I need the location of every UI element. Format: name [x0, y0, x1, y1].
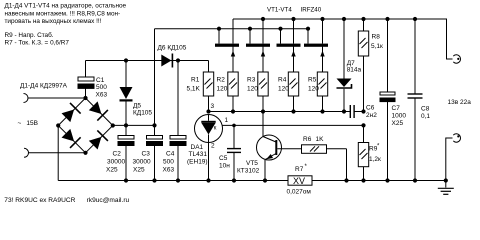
svg-text:VT1-VT4: VT1-VT4 [267, 7, 292, 14]
output terminal minus [453, 134, 460, 142]
resistor R8 [358, 19, 368, 112]
label R7* [287, 164, 312, 196]
svg-text:C8: C8 [421, 106, 430, 113]
label C8 0,1 [421, 106, 430, 121]
resistor R2 [228, 72, 238, 112]
label Д7 814а [347, 60, 362, 74]
svg-text:0,027ом: 0,027ом [287, 189, 312, 196]
svg-text:0,1: 0,1 [421, 113, 430, 120]
svg-text:500: 500 [163, 159, 174, 166]
svg-text:R4: R4 [278, 77, 287, 84]
AC input terminal bottom [24, 148, 29, 157]
node bridge bottom corner [83, 151, 87, 155]
ground [438, 181, 454, 195]
svg-text:C4: C4 [166, 150, 175, 157]
capacitor C3 [147, 125, 163, 180]
svg-text:R8: R8 [372, 34, 381, 41]
svg-text:VT5: VT5 [246, 160, 258, 167]
wire top output bus [233, 19, 453, 59]
resistor R1 [203, 61, 213, 112]
node C2 junction [124, 123, 128, 127]
svg-text:C6: C6 [366, 104, 375, 111]
svg-text:навесным монтажем. !!! R8,R9,С: навесным монтажем. !!! R8,R9,С8 мон- [5, 10, 121, 17]
svg-text:DA1: DA1 [191, 144, 204, 151]
svg-text:rk9uc@mail.ru: rk9uc@mail.ru [87, 197, 130, 204]
svg-text:к: к [214, 126, 217, 132]
diode Д6 [161, 54, 172, 68]
svg-text:R5: R5 [308, 77, 317, 84]
svg-text:15В: 15В [26, 120, 38, 127]
transistor VT3 mosfet [277, 19, 301, 72]
node gate bus junctions [206, 109, 346, 113]
svg-text:1K: 1K [316, 136, 325, 143]
diode Д3 lower-left [61, 128, 81, 148]
node R8/C6 junction [361, 109, 365, 113]
capacitor C6 [344, 105, 364, 118]
label C7 1000 X25 [392, 105, 407, 127]
svg-text:R1: R1 [191, 77, 200, 84]
transistor VT4 mosfet [304, 19, 328, 72]
label Д5 КД105 [133, 103, 152, 117]
svg-text:Д1-Д4 VT1-VT4 на радиаторе, ос: Д1-Д4 VT1-VT4 на радиаторе, остальное [5, 3, 127, 10]
wire gate bus [209, 111, 345, 113]
svg-text:тировать на выходных клемах !!: тировать на выходных клемах !!! [5, 18, 102, 25]
node bridge top corner [83, 96, 87, 100]
node drain bus junctions [217, 27, 310, 31]
label R6 1K [303, 136, 324, 143]
wire bridge minus down [57, 126, 59, 181]
diode Д5 [120, 61, 133, 126]
wire DA1 anode to rail [208, 143, 210, 181]
diode Д7 zener [337, 19, 352, 112]
transistor Q5 VT5 КТ3102 [257, 112, 302, 181]
svg-text:C1: C1 [96, 77, 105, 84]
label C6 2н2 [366, 104, 377, 119]
svg-text:КД105: КД105 [133, 110, 152, 117]
resistor R3 [258, 72, 268, 112]
label VT5 КТ3102 [237, 160, 260, 175]
label C5 10н [219, 155, 230, 169]
wire bottom rail left of R7 [58, 180, 288, 182]
transistor VT2 mosfet [246, 19, 270, 72]
svg-text:X25: X25 [106, 166, 118, 173]
svg-text:C3: C3 [142, 150, 151, 157]
diode Д2 upper-right [88, 101, 108, 121]
svg-text:120: 120 [247, 86, 258, 93]
svg-text:120: 120 [278, 86, 289, 93]
capacitor C4 [170, 61, 186, 181]
resistor R9 [358, 125, 368, 180]
node Д6 cathode / C4 tap [176, 58, 180, 62]
svg-text:30000: 30000 [107, 159, 125, 166]
label R5 120 [308, 77, 319, 93]
label C3 30000 X25 [133, 150, 151, 173]
resistor R6 [302, 145, 347, 181]
svg-text:Д6 КД105: Д6 КД105 [158, 45, 187, 52]
svg-text:~: ~ [18, 120, 22, 127]
label R8 5,1к [371, 34, 383, 51]
op-amp U1 DA1 TL431 [195, 115, 223, 143]
footer text [4, 197, 129, 204]
svg-text:1: 1 [225, 117, 229, 124]
svg-text:R2: R2 [217, 77, 226, 84]
resistor R7 shunt [288, 176, 312, 186]
wire ref line [223, 124, 364, 126]
diode Д1 upper-left [61, 103, 81, 123]
transistor VT1 mosfet [215, 19, 239, 72]
diode Д4 lower-right [88, 130, 108, 150]
label R2 120 [217, 77, 228, 93]
svg-text:TL431: TL431 [189, 151, 208, 158]
svg-text:10н: 10н [219, 162, 230, 169]
svg-text:5,1K: 5,1K [187, 86, 201, 93]
wire plus bus [113, 124, 155, 126]
svg-text:X63: X63 [163, 166, 175, 173]
label C2 30000 X25 [106, 150, 125, 173]
resistor R5 [317, 72, 327, 112]
svg-text:Д1-Д4 КД2997А: Д1-Д4 КД2997А [20, 83, 68, 90]
label R3 120 [247, 77, 258, 93]
svg-text:1,2к: 1,2к [369, 156, 381, 163]
svg-text:X63: X63 [96, 92, 108, 99]
label R1 5,1K [187, 77, 201, 93]
wire output minus [446, 138, 453, 181]
svg-text:X25: X25 [392, 120, 404, 127]
label ~ 15В [18, 120, 38, 127]
wire AC bottom to bridge [29, 152, 86, 154]
node bridge right corner [111, 123, 115, 127]
label VT1-VT4 IRFZ40 [267, 7, 322, 14]
svg-text:30000: 30000 [133, 159, 151, 166]
svg-text:3: 3 [211, 103, 215, 110]
wire charge-pump line y60.5 [86, 60, 209, 62]
svg-text:R6: R6 [303, 136, 312, 143]
svg-text:X25: X25 [133, 166, 145, 173]
svg-text:R7 - Ток. К.З. = 0,6/R7: R7 - Ток. К.З. = 0,6/R7 [5, 40, 70, 47]
node C5 top [232, 124, 236, 128]
svg-text:73! RK9UC ex RA9UCR: 73! RK9UC ex RA9UCR [4, 197, 75, 204]
output terminal plus [453, 55, 460, 63]
svg-text:R7: R7 [295, 166, 304, 173]
label R4 120 [278, 77, 289, 93]
wire bottom rail right of R7 [312, 180, 446, 182]
label C4 500 X63 [163, 150, 175, 173]
svg-text:C7: C7 [392, 105, 401, 112]
node ref/R9 junction [361, 123, 365, 127]
label DA1 TL431 (ЕН19) [187, 144, 208, 165]
node Д5 tap [124, 58, 128, 62]
svg-text:(ЕН19): (ЕН19) [187, 158, 208, 165]
label C1 500 X63 [96, 77, 108, 99]
svg-text:120: 120 [308, 86, 319, 93]
capacitor C2 [118, 125, 134, 180]
capacitor C7 [380, 19, 395, 181]
bridge rectifier Д1-Д4 edges [58, 98, 113, 153]
svg-text:120: 120 [217, 86, 228, 93]
svg-text:C2: C2 [113, 150, 122, 157]
wire drain riser [154, 29, 156, 126]
AC input terminal top [24, 94, 29, 103]
note text block [5, 3, 127, 47]
svg-text:R9 - Напр. Стаб.: R9 - Напр. Стаб. [5, 31, 54, 39]
svg-text:814а: 814а [347, 67, 362, 74]
label R9* 1,2к [369, 144, 381, 164]
svg-text:2: 2 [211, 143, 215, 150]
wire AC top to bridge [28, 97, 86, 99]
node rail junctions [124, 178, 448, 182]
svg-text:C5: C5 [219, 155, 228, 162]
svg-text:IRFZ40: IRFZ40 [301, 7, 322, 14]
svg-text:1000: 1000 [392, 113, 407, 120]
svg-text:КТ3102: КТ3102 [237, 167, 260, 174]
node drain riser junction [152, 123, 156, 127]
svg-text:5,1к: 5,1к [371, 43, 383, 50]
capacitor C8 [408, 19, 423, 181]
svg-text:500: 500 [96, 84, 107, 91]
svg-text:13в 22а: 13в 22а [448, 99, 472, 106]
resistor R4 [288, 72, 298, 112]
svg-text:2н2: 2н2 [366, 112, 377, 119]
wire drain bus [155, 28, 309, 30]
capacitor C1 [78, 61, 94, 99]
node bridge left corner [56, 123, 60, 127]
svg-text:XV: XV [293, 176, 305, 186]
svg-text:R3: R3 [247, 77, 256, 84]
capacitor C5 [227, 125, 241, 180]
node top bus junctions [261, 17, 417, 21]
svg-text:Д5: Д5 [133, 103, 141, 110]
